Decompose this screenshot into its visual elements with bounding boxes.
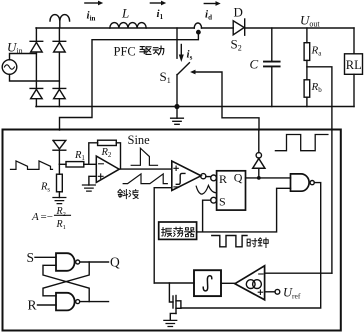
svg-text:Q: Q [110, 255, 120, 270]
svg-text:A: A [31, 211, 39, 223]
svg-text:Sine: Sine [128, 133, 151, 147]
svg-text:Q: Q [234, 171, 243, 185]
rail hop over node [194, 23, 201, 28]
switch S1 [177, 28, 189, 107]
clock line oscillator to NAND [197, 188, 291, 232]
label clock (shi zhong) [247, 239, 257, 247]
svg-text:is: is [187, 49, 193, 62]
op-amp output wire to comparator [119, 168, 172, 170]
wire R1 to opamp [84, 163, 97, 165]
bridge diode V2 (top-right) [53, 28, 66, 88]
svg-text:Rb: Rb [311, 81, 323, 94]
ground main [171, 118, 184, 124]
boost diode D [233, 19, 245, 35]
cross-coupling G2 out to G1 input [43, 265, 89, 301]
Uref terminal [265, 291, 275, 293]
svg-text:Rs: Rs [40, 182, 50, 194]
ground at op-amp + input [89, 176, 96, 185]
integrator to error amp wire [221, 282, 235, 284]
ground below Rs [53, 198, 66, 204]
resistor Ra [304, 28, 310, 80]
top rail [36, 27, 354, 29]
squiggle annotation [196, 185, 216, 194]
wire AC top terminal to bridge [10, 54, 37, 60]
svg-text:D: D [234, 5, 243, 20]
svg-text:S: S [219, 195, 226, 209]
node A dot below hop [196, 30, 201, 35]
svg-text:Uref: Uref [283, 286, 301, 301]
inductor L [110, 23, 146, 28]
sine pulse annotation [131, 148, 157, 165]
Q output wire [246, 177, 291, 179]
wire node A to sense path [60, 34, 199, 130]
label ramp (xie bo) [118, 189, 128, 198]
op-amp U1 [96, 156, 119, 182]
NAND gate U4 [291, 174, 310, 191]
bridge diode V1 (top-left) [30, 28, 43, 88]
AC source Uin [2, 60, 17, 75]
svg-text:S: S [27, 250, 35, 265]
reset transistor Q1 (MOSFET) [169, 283, 181, 320]
S input wire to clock line [203, 200, 211, 232]
svg-text:i1: i1 [157, 8, 164, 21]
svg-text:C: C [250, 57, 259, 72]
divider tap feedback wire [307, 67, 332, 273]
resistor Rb [304, 80, 310, 107]
arrow id [204, 3, 216, 5]
resistor R2 [98, 140, 117, 145]
svg-text:R: R [219, 172, 227, 186]
comparator U2 [172, 161, 201, 191]
svg-text:id: id [205, 9, 212, 22]
svg-text:R: R [28, 298, 37, 313]
wire node to R1 [59, 163, 66, 165]
svg-text:S2: S2 [231, 37, 242, 53]
svg-text:S1: S1 [160, 69, 171, 85]
bottom bus [36, 106, 354, 108]
svg-text:R1: R1 [74, 150, 85, 162]
ground below transistor [164, 320, 177, 326]
svg-text:Ra: Ra [311, 45, 323, 58]
svg-text:PFC: PFC [114, 45, 136, 59]
svg-text:Uout: Uout [300, 13, 320, 29]
arrow i1 [150, 2, 161, 4]
sawtooth waveform annotation (line voltage) [11, 161, 53, 170]
capacitor C [264, 28, 280, 107]
arrow i_in [85, 2, 99, 4]
wire AC bottom terminal to bridge [10, 74, 60, 81]
control box [3, 130, 341, 331]
NAND output wire down to transistor drain line [181, 183, 321, 308]
svg-text:=−: =− [41, 211, 53, 223]
svg-text:R2: R2 [101, 147, 112, 159]
resistor Rs [57, 164, 63, 197]
comparator output bubble [201, 174, 206, 179]
svg-text:R1: R1 [56, 219, 66, 231]
integrator block [194, 270, 221, 296]
square wave annotation [275, 135, 328, 151]
bridge diode V3 (bottom-left) [30, 88, 43, 106]
R input wire [38, 304, 57, 306]
integrator input wire [154, 282, 194, 284]
resistor R1 [66, 162, 84, 167]
input choke (double hump) [50, 15, 70, 28]
arrow is [180, 45, 182, 56]
oscillator box [159, 222, 197, 239]
RS flip-flop [217, 171, 246, 210]
bridge diode V4 (bottom-right) [53, 88, 66, 106]
svg-text:L: L [121, 6, 129, 21]
sense diode D2 [53, 140, 66, 164]
ramp annotation [123, 174, 167, 184]
driver inverter U3 [253, 130, 265, 178]
feedback loop to R2 [89, 143, 121, 169]
formula A=-R2/R1 [31, 206, 66, 231]
gate drive arrow to S1 [195, 72, 259, 130]
node S1-ground junction [174, 104, 179, 109]
comparator inverting input wire from integrator line [154, 188, 172, 283]
clock waveform annotation [212, 236, 247, 247]
error amp inverting input wire (from divider) [265, 272, 332, 274]
error amplifier U5 [235, 266, 265, 300]
NAND latch gate G2 [56, 293, 75, 311]
NAND latch gate G1 [56, 253, 75, 271]
node on Q wire [257, 176, 261, 180]
svg-text:RL: RL [346, 58, 362, 72]
G1 output wire to Q [80, 261, 109, 263]
svg-text:iin: iin [87, 10, 96, 23]
G2 output stub [80, 301, 109, 303]
cross-coupling G1 out to G2 input [43, 262, 89, 296]
S input wire [35, 256, 56, 258]
load RL [345, 28, 363, 107]
